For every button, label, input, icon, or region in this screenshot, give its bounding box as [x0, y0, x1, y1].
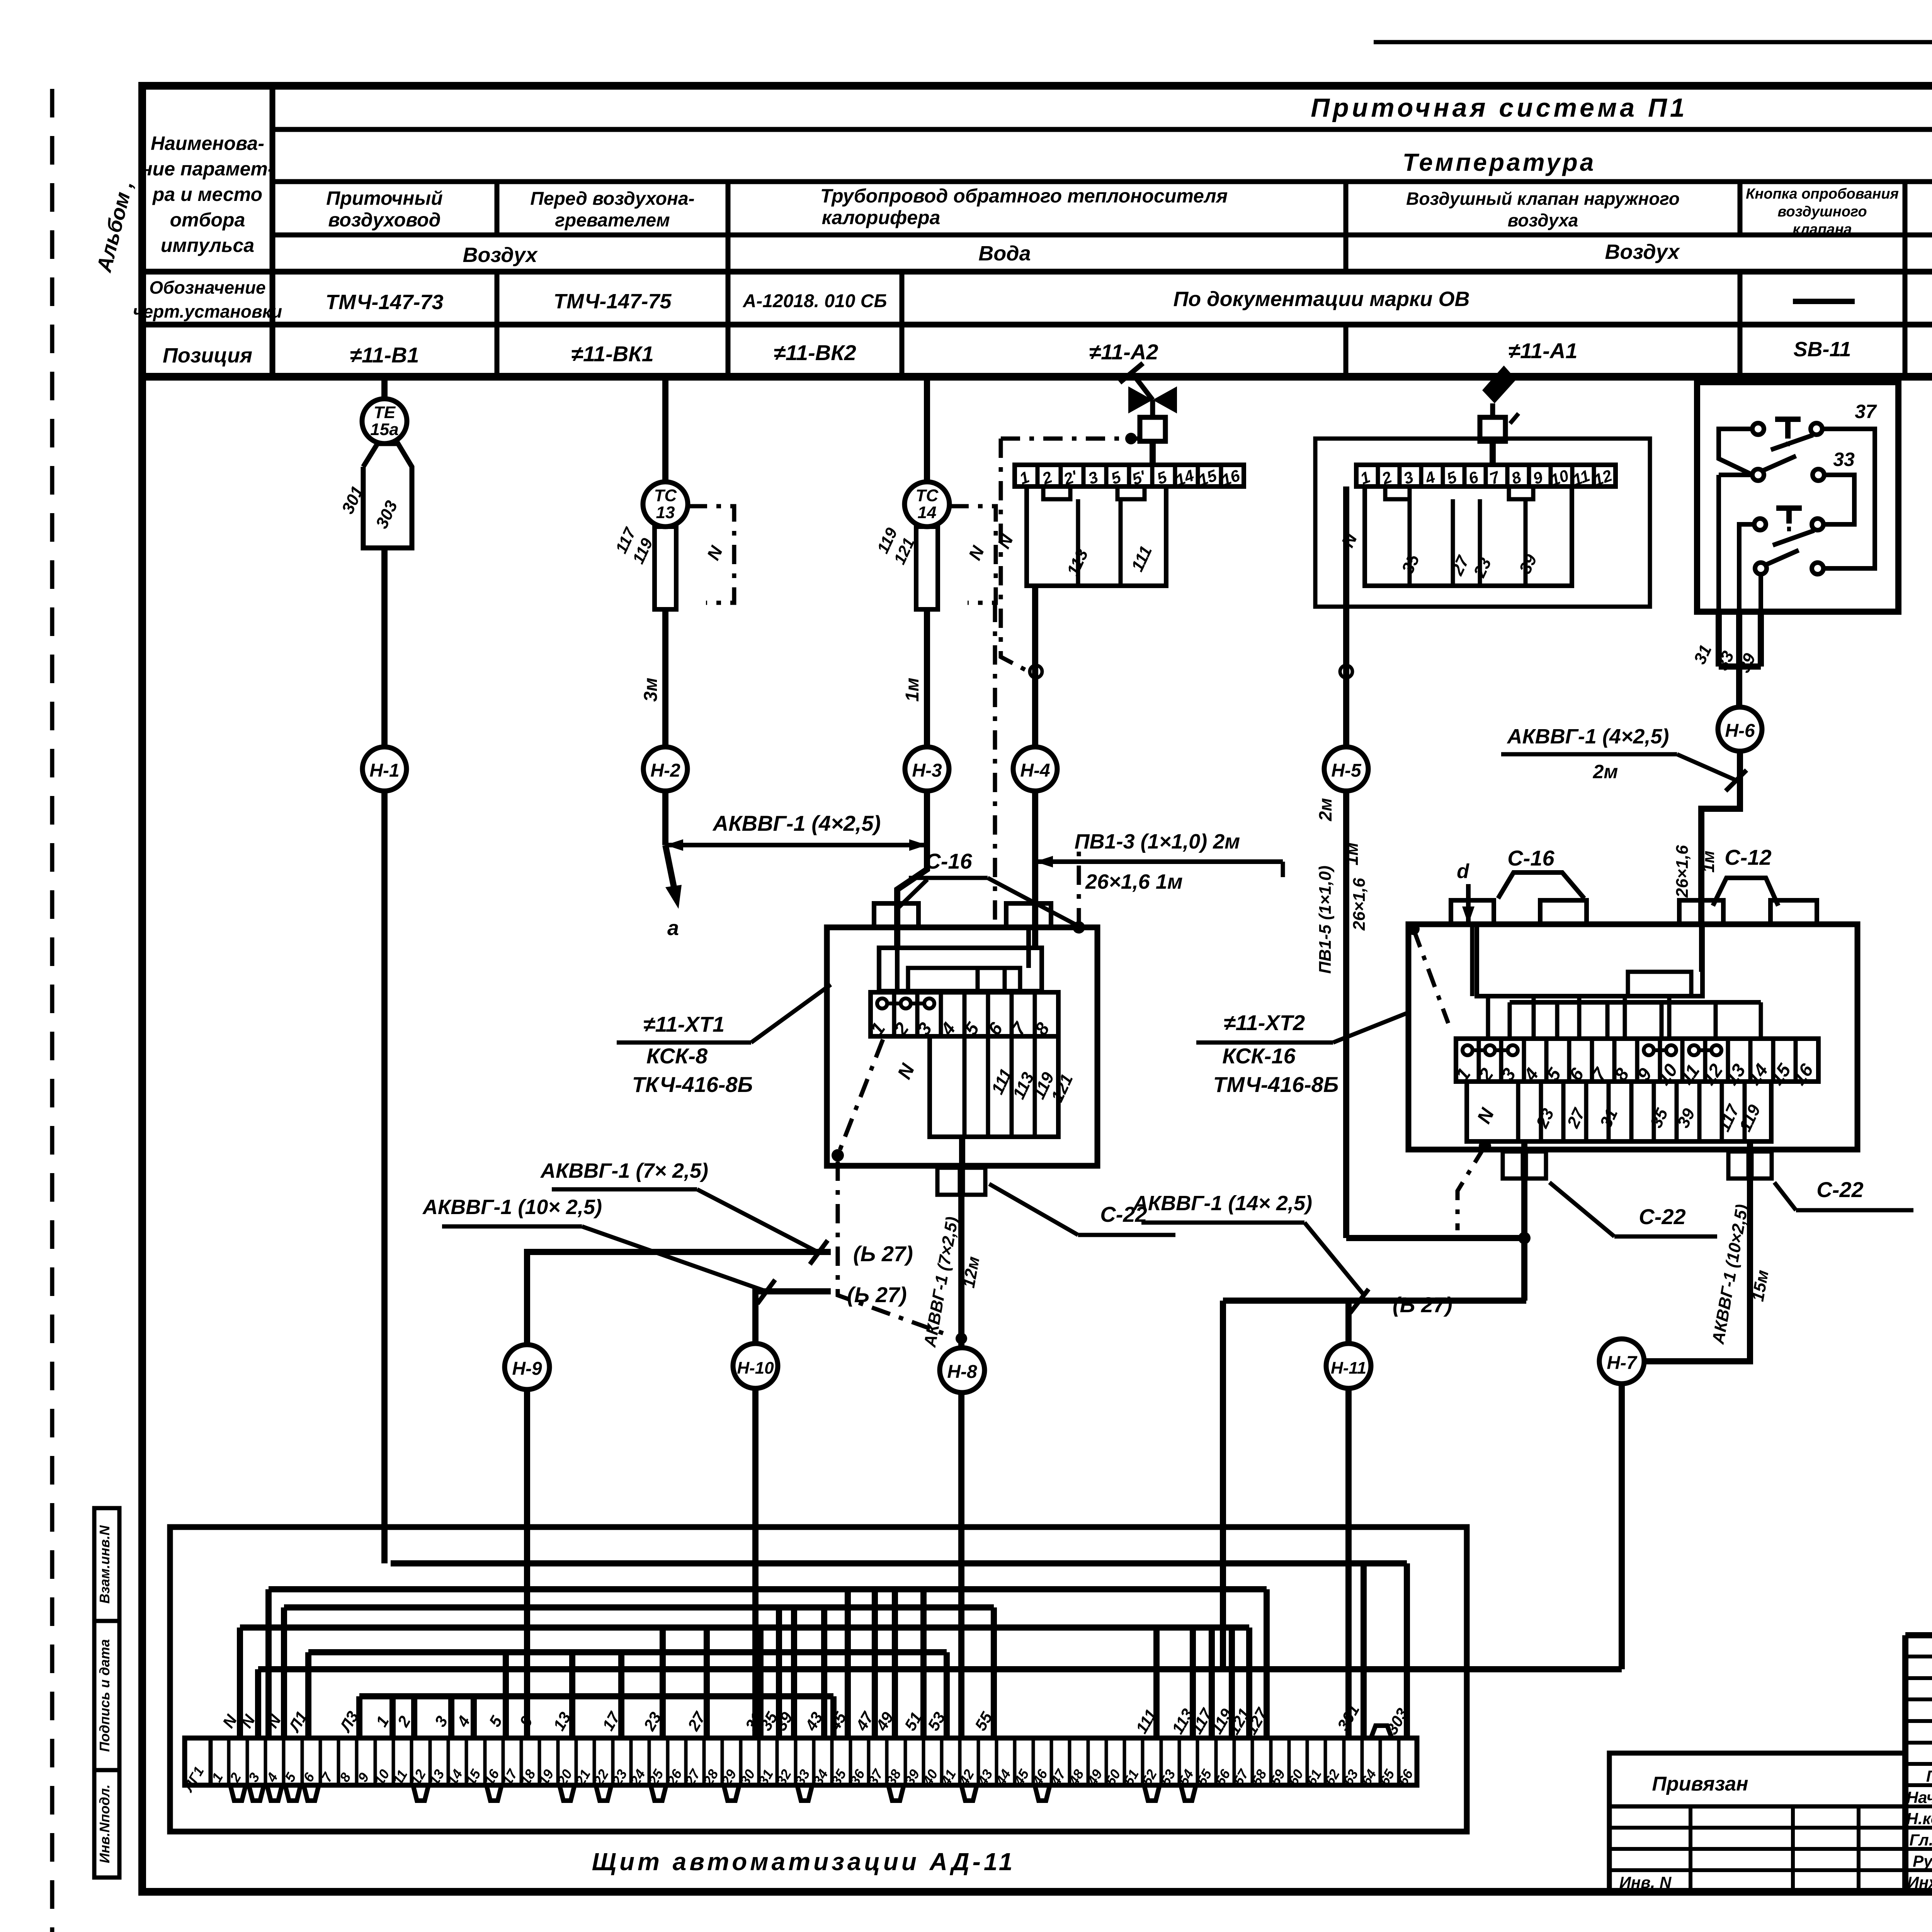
instrument circle Н-11: [1326, 1344, 1371, 1388]
svg-text:Щит автоматизации АД-1: Щит автоматизации АД-11: [592, 1848, 1016, 1876]
neutral bus line to Н-7: [258, 1666, 1622, 1672]
wire Н-10 to panel strip: [752, 1388, 759, 1738]
wire Н-2 to point a: [662, 791, 668, 845]
wire from table to ТС-14: [924, 377, 930, 483]
wire drop: [892, 1589, 898, 1738]
free-end dash-dot box: [949, 506, 996, 603]
internal bus bars: [879, 948, 1042, 991]
connector stub: [1540, 900, 1587, 924]
instrument circle Н-8: [940, 1348, 985, 1393]
wire drop: [503, 1652, 509, 1738]
sensor body thermowell: [363, 444, 412, 548]
connector stub C-16 left: [874, 903, 918, 927]
svg-text:ПВ1-5 (1×1,0): ПВ1-5 (1×1,0): [1316, 866, 1335, 974]
instrument circle Н-5: [1324, 747, 1368, 791]
svg-text:ТЕ: ТЕ: [374, 403, 396, 422]
connector С-12 trapezoid: [1713, 878, 1778, 906]
junction on Н-8 cable: [956, 1333, 967, 1344]
wire drop: [776, 1607, 782, 1738]
svg-text:ПВ1-3 (1×1,0) 2м: ПВ1-3 (1×1,0) 2м: [1075, 830, 1240, 853]
svg-text:Воздух: Воздух: [1605, 240, 1680, 264]
wire drop: [845, 1589, 851, 1738]
air valve sensor symbol (А1 column): [1482, 366, 1516, 403]
terminal strip КСК-16 (1..16): [1456, 1039, 1818, 1082]
svg-text:(Ь 27): (Ь 27): [853, 1242, 913, 1266]
svg-text:ТМЧ-147-73: ТМЧ-147-73: [326, 291, 444, 314]
svg-text:Н-1: Н-1: [369, 760, 399, 781]
sensor box А1: [1480, 417, 1505, 441]
signature table: [1905, 1655, 1932, 1658]
connector С-22 left under КСК-16: [1521, 1141, 1527, 1151]
svg-text:Н-3: Н-3: [912, 760, 942, 781]
svg-text:14: 14: [918, 503, 937, 522]
svg-text:Температура: Температура: [1403, 148, 1596, 176]
svg-text:ТМЧ-416-8Б: ТМЧ-416-8Б: [1213, 1072, 1339, 1097]
svg-text:Приточный: Приточный: [326, 187, 443, 209]
dash-dot shield diagonal: [839, 1039, 883, 1151]
svg-text:Гл.спец.: Гл.спец.: [1909, 1831, 1932, 1849]
wire drop: [1229, 1628, 1235, 1738]
wire drop: [448, 1696, 454, 1738]
svg-text:≠11-ХТ1: ≠11-ХТ1: [643, 1012, 724, 1036]
svg-text:SB-11: SB-11: [1793, 338, 1851, 361]
junction box under valve strip: [1027, 486, 1166, 586]
svg-text:Н-11: Н-11: [1331, 1359, 1366, 1378]
wire 301 drop: [1361, 1563, 1367, 1738]
svg-text:Привязан: Привязан: [1652, 1773, 1748, 1795]
connector stub C-16 right: [1006, 903, 1051, 927]
connector С-22 right under КСК-16: [1747, 1141, 1753, 1151]
instrument circle Н-7: [1599, 1339, 1644, 1384]
terminal strip КСК-8 (1..8): [871, 992, 1058, 1036]
temperature sensor ТС-13: [643, 482, 688, 527]
svg-text:По документации марки: По документации марки ОВ: [1173, 287, 1469, 311]
wire valve box to Н-4: [1032, 586, 1038, 747]
bus line 2: [269, 1586, 1267, 1592]
junction box ХТ2 КСК-16: [1408, 924, 1857, 1150]
terminal strip of А1 (1..12): [1356, 465, 1616, 486]
svg-text:Н.контр.: Н.контр.: [1906, 1810, 1932, 1828]
internal bus bars: [1477, 924, 1702, 996]
wire drop: [920, 1589, 927, 1738]
wire Н-8 to panel strip: [958, 1393, 964, 1738]
wire from table to TE sensor: [381, 377, 388, 398]
left margin stamp strip: [94, 1508, 119, 1878]
svg-text:37: 37: [1855, 401, 1877, 422]
wire Н-9 to line 27: [527, 1252, 831, 1345]
cable cut slash: [1726, 770, 1747, 791]
svg-text:26×1,6: 26×1,6: [1673, 845, 1692, 898]
svg-text:С-12: С-12: [1725, 845, 1771, 869]
junction on box bottom: [1479, 1140, 1491, 1152]
bus line 4: [240, 1624, 1249, 1631]
svg-text:Н-2: Н-2: [650, 760, 680, 781]
svg-text:С-16: С-16: [1507, 846, 1554, 870]
svg-text:гревателем: гревателем: [555, 210, 670, 231]
push button plunger bar: [1775, 417, 1801, 422]
instrument circle Н-6: [1718, 707, 1762, 751]
svg-text:≠11-А2: ≠11-А2: [1089, 340, 1158, 364]
instrument circle Н-4: [1013, 747, 1057, 791]
svg-text:Рук. гр.: Рук. гр.: [1913, 1852, 1932, 1870]
wire drop: [872, 1589, 878, 1738]
wire Н-9 to panel strip: [524, 1389, 530, 1738]
junction on box top: [1073, 921, 1085, 934]
title block outline: [1905, 1631, 1932, 1892]
junction: [1125, 433, 1137, 444]
wire Н-3 to КСК-8: [897, 791, 927, 949]
instrument circle Н-9: [505, 1345, 549, 1389]
connector С-16 trapezoid: [1498, 872, 1584, 898]
svg-text:С-16: С-16: [925, 849, 972, 873]
instrument circle Н-3: [905, 747, 949, 791]
valve actuator symbol (А2 column): [1128, 386, 1153, 413]
wire drop: [471, 1696, 477, 1738]
svg-text:Инв. N: Инв. N: [1619, 1873, 1672, 1891]
parameter table grid: [142, 82, 1932, 90]
svg-text:Приточная система П1: Приточная система П1: [1311, 93, 1687, 122]
automation panel АД-11 box: [170, 1527, 1467, 1832]
wire from table to ТС-13: [662, 377, 668, 483]
svg-text:А-12018. 010 СБ: А-12018. 010 СБ: [743, 291, 887, 311]
svg-text:С-22: С-22: [1639, 1204, 1685, 1229]
bus line 7: [359, 1693, 833, 1699]
svg-text:Воздушный клапан наружного: Воздушный клапан наружного: [1406, 189, 1680, 209]
svg-text:1м: 1м: [902, 678, 923, 702]
svg-text:ТКЧ-416-8Б: ТКЧ-416-8Б: [632, 1072, 753, 1097]
instrument circle Н-2: [643, 747, 687, 791]
contact lower 2: [1755, 563, 1767, 574]
wire drop: [704, 1628, 710, 1738]
svg-text:Наименова-: Наименова-: [151, 133, 264, 154]
connector stub: [1451, 900, 1494, 924]
wire drop: [411, 1696, 417, 1738]
wire drop: [618, 1652, 624, 1738]
wire drop: [660, 1628, 666, 1738]
cable callout АКВВГ-1 (4х2,5) between Н-2 and Н-3: [665, 843, 927, 847]
svg-text:АКВВГ-1 (10× 2,5): АКВВГ-1 (10× 2,5): [422, 1196, 602, 1219]
svg-text:≠11-ХТ2: ≠11-ХТ2: [1224, 1010, 1305, 1035]
internal wires of SB-11: [1719, 429, 1753, 475]
wire А1 N to Н-5: [1343, 486, 1349, 747]
svg-text:26×1,6 1м: 26×1,6 1м: [1085, 870, 1183, 893]
svg-text:КСК-16: КСК-16: [1222, 1044, 1296, 1068]
lower wire compartment: [1467, 1082, 1771, 1141]
dash-dot shield diagonal: [1407, 923, 1420, 935]
svg-text:Н-9: Н-9: [512, 1359, 542, 1379]
wire drop: [389, 1696, 396, 1738]
svg-text:ра и место: ра и место: [152, 184, 262, 205]
svg-text:АКВВГ-1 (7× 2,5): АКВВГ-1 (7× 2,5): [540, 1159, 708, 1182]
wire ТС-13 down: [662, 609, 668, 747]
cable КСК-8 to Н-8: [958, 1195, 964, 1348]
sheet top edge line: [1374, 40, 1932, 44]
wire drop: [1190, 1628, 1196, 1738]
svg-text:АКВВГ-1 (4×2,5): АКВВГ-1 (4×2,5): [712, 811, 881, 835]
svg-text:ТС: ТС: [916, 486, 939, 505]
linked terminals circles: [877, 998, 887, 1009]
bus 301 303 from Н-1: [391, 1560, 1407, 1566]
svg-text:ГИП: ГИП: [1926, 1767, 1932, 1785]
svg-text:Позиция: Позиция: [163, 344, 252, 367]
svg-text:Воздух: Воздух: [463, 243, 538, 267]
svg-text:≠11-А1: ≠11-А1: [1508, 338, 1577, 363]
svg-text:Перед воздухона-: Перед воздухона-: [530, 189, 694, 209]
svg-text:Н-5: Н-5: [1331, 760, 1362, 781]
wire Н-5 node line: [1346, 1235, 1524, 1241]
svg-text:воздуховод: воздуховод: [328, 209, 440, 231]
wire Н-5 down: [1343, 791, 1349, 1238]
wire drop: [1209, 1628, 1215, 1738]
svg-text:(Ь 27): (Ь 27): [1393, 1293, 1452, 1317]
shield junction: [832, 1149, 844, 1162]
svg-text:черт.установки: черт.установки: [133, 301, 282, 321]
svg-text:2м: 2м: [1593, 761, 1618, 782]
wire Н-4 to КСК-8: [1032, 791, 1038, 949]
cable КСК-16 to Н-7: [1644, 1179, 1750, 1361]
wire valve to terminal strip: [1150, 441, 1156, 465]
svg-text:Н-6: Н-6: [1725, 721, 1755, 741]
jumper bridge over terminals 64-65: [1371, 1726, 1392, 1738]
svg-text:3м: 3м: [641, 678, 661, 702]
mounting feet: [230, 1785, 246, 1801]
svg-text:Н-8: Н-8: [947, 1362, 977, 1382]
svg-text:воздуха: воздуха: [1508, 210, 1578, 230]
svg-text:Кнопка опробования: Кнопка опробования: [1746, 186, 1899, 202]
wire drop: [821, 1607, 827, 1738]
svg-text:Обозначение: Обозначение: [149, 277, 265, 298]
wire С-22 to node line: [1521, 1179, 1527, 1301]
valve positioner box: [1140, 417, 1165, 441]
svg-text:АКВВГ-1 (4×2,5): АКВВГ-1 (4×2,5): [1507, 725, 1669, 748]
wire Н-6 to КСК-16: [1701, 751, 1740, 924]
svg-text:1м: 1м: [1342, 842, 1362, 866]
svg-text:1м: 1м: [1699, 850, 1718, 872]
svg-text:≠11-В1: ≠11-В1: [350, 343, 419, 367]
svg-text:≠11-ВК2: ≠11-ВК2: [774, 340, 856, 365]
junction box ХТ1 КСК-8: [827, 927, 1097, 1166]
node line with line-27 reference: [1223, 1298, 1526, 1304]
svg-text:Взам.инв.N: Взам.инв.N: [97, 1525, 112, 1604]
cable callout ПВ1-3: [1035, 859, 1283, 864]
dash-dot shield link to Н-8 cable: [838, 1162, 951, 1336]
svg-text:воздушного: воздушного: [1777, 204, 1867, 220]
svg-text:ние парамет-: ние парамет-: [141, 158, 274, 180]
sensor stem rectangle: [655, 527, 676, 609]
svg-text:отбора: отбора: [170, 209, 245, 231]
wire sensor to strip: [1490, 441, 1496, 465]
svg-text:Н-7: Н-7: [1607, 1353, 1638, 1373]
push button station SB-11: [1697, 382, 1898, 612]
svg-text:2м: 2м: [1315, 798, 1335, 821]
temperature sensor TE 15а: [362, 399, 407, 444]
svg-text:КСК-8: КСК-8: [646, 1044, 708, 1068]
svg-text:Н-4: Н-4: [1020, 760, 1050, 781]
lower wire compartment: [930, 1036, 1058, 1137]
wire Н-10 to line 27: [755, 1291, 831, 1344]
привязан box: [1609, 1753, 1905, 1892]
svg-text:d: d: [1457, 860, 1469, 883]
svg-text:ТМЧ-147-75: ТМЧ-147-75: [554, 290, 672, 313]
svg-text:Трубопровод обратного те: Трубопровод обратного теплоносителя: [820, 185, 1228, 207]
svg-text:(Ь 27): (Ь 27): [847, 1282, 907, 1307]
instrument circle Н-10: [733, 1344, 778, 1388]
wire drop: [1153, 1628, 1160, 1738]
wire Н-7 down to N bus: [1619, 1384, 1625, 1669]
dash-dot shield left of valve box: [1001, 439, 1029, 672]
junction: [1518, 1232, 1531, 1244]
bus line 3: [284, 1604, 994, 1611]
wire drop: [569, 1652, 575, 1738]
svg-text:≠11-ВК1: ≠11-ВК1: [571, 342, 654, 366]
svg-text:Нач. отд: Нач. отд: [1906, 1788, 1932, 1806]
connector stub: [1679, 900, 1723, 924]
svg-text:импульса: импульса: [161, 235, 254, 256]
svg-text:ТС: ТС: [654, 486, 677, 505]
wire ТС-14 down: [924, 609, 930, 747]
svg-text:клапана: клапана: [1793, 221, 1852, 238]
svg-text:калорифера: калорифера: [822, 207, 940, 228]
junction box under А1 strip: [1365, 486, 1572, 586]
contact 33: [1752, 469, 1764, 481]
connector С-22 under КСК-8: [959, 1137, 965, 1168]
wire TE to H-1: [381, 548, 388, 747]
wire 303 drop: [1404, 1563, 1410, 1738]
shield junction small circle: [1030, 665, 1042, 678]
wire Н-11 up to node line: [1345, 1301, 1352, 1344]
svg-text:С-22: С-22: [1816, 1177, 1863, 1202]
outer dashed border left: [50, 89, 54, 1932]
svg-text:АКВВГ-1 (14× 2,5): АКВВГ-1 (14× 2,5): [1132, 1192, 1312, 1215]
svg-text:26×1,6: 26×1,6: [1350, 878, 1369, 931]
push button plunger bar: [1776, 505, 1802, 511]
sensor stem rectangle: [916, 527, 938, 609]
wire H-1 down to panel: [381, 791, 388, 1563]
svg-text:13: 13: [656, 503, 675, 522]
bus line 5: [308, 1649, 947, 1655]
terminal strip of valve А2: [1015, 465, 1244, 486]
dash-dot from ТС-14 free end down to box: [993, 603, 997, 927]
svg-text:Подпись и дата: Подпись и дата: [97, 1639, 112, 1752]
wires leaving SB-11: [1716, 612, 1722, 667]
instrument circle Н-1: [362, 747, 406, 791]
svg-text:33: 33: [1833, 449, 1855, 470]
connector stub: [1770, 900, 1817, 924]
svg-text:Вода: Вода: [978, 242, 1031, 265]
free-end dash-dot box: [688, 506, 734, 603]
dash value in кнопка column: [1793, 299, 1855, 304]
wire drop: [791, 1607, 797, 1738]
dash-dot link to valve box: [1001, 437, 1140, 441]
shield junction small circle: [1340, 665, 1352, 678]
svg-text:Н-10: Н-10: [737, 1359, 774, 1378]
wire drop: [757, 1628, 764, 1738]
svg-text:а: а: [667, 917, 679, 940]
panel terminal strip: [185, 1738, 1417, 1785]
tick at callout end: [1281, 862, 1285, 877]
svg-text:15а: 15а: [370, 420, 398, 439]
svg-text:Инв.Nподл.: Инв.Nподл.: [97, 1784, 112, 1863]
dash-dot enclosure of А1 circuit: [1315, 439, 1650, 607]
wire from Н-6 inside box: [1699, 924, 1704, 972]
wire node to N bus: [1220, 1301, 1226, 1669]
svg-text:Инженер: Инженер: [1907, 1873, 1932, 1891]
linked terminal circles: [1463, 1045, 1473, 1055]
wire Н-11 to panel strip: [1345, 1388, 1352, 1738]
temperature sensor ТС-14: [905, 482, 949, 527]
